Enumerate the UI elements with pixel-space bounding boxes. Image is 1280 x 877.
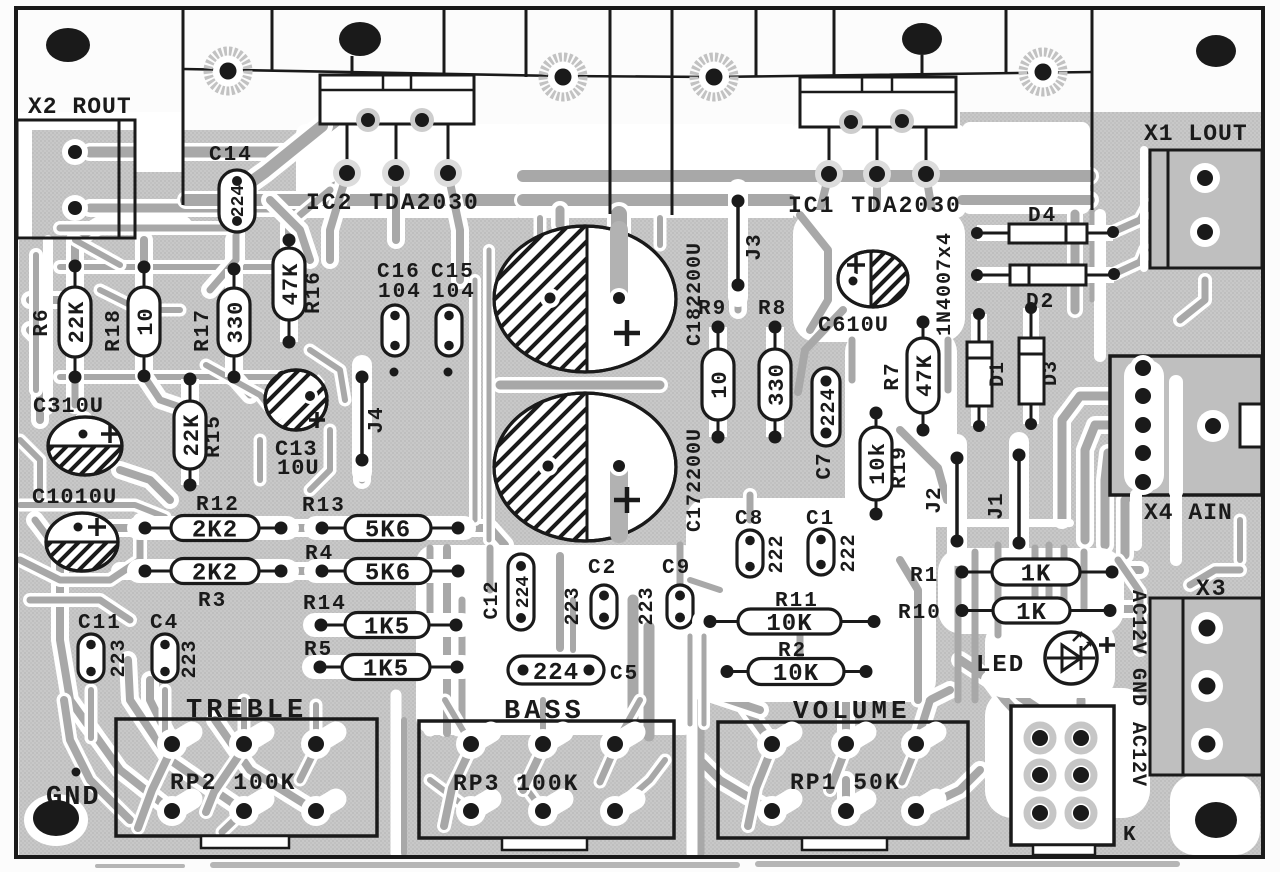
svg-text:GND: GND: [1126, 668, 1149, 707]
svg-text:224: 224: [818, 387, 841, 426]
svg-text:5K6: 5K6: [365, 561, 411, 588]
svg-text:2K2: 2K2: [192, 561, 238, 588]
capacitor C11: [78, 634, 131, 682]
X3 pin labels AC12V GND AC12V: [1126, 590, 1149, 787]
jumper J3: [732, 189, 768, 297]
capacitor C17: [346, 387, 829, 547]
mounting hole top-left: [46, 28, 90, 62]
svg-text:R5: R5: [304, 639, 333, 662]
GND pad: [72, 768, 81, 777]
wire traces network: [985, 688, 1150, 818]
LED D5: [1045, 632, 1097, 684]
svg-text:J1: J1: [986, 492, 1009, 519]
capacitor C9 label: [662, 557, 691, 580]
svg-text:223: 223: [636, 586, 659, 625]
svg-text:104: 104: [378, 281, 422, 304]
capacitor C13 label: [275, 437, 320, 481]
svg-text:C310U: C310U: [33, 394, 104, 419]
label BASS: [504, 697, 585, 727]
svg-text:R6: R6: [31, 307, 54, 336]
resistor R10: [898, 598, 1117, 627]
svg-text:R11: R11: [775, 590, 819, 613]
svg-text:C11: C11: [78, 612, 122, 635]
RP2 interior traces: [138, 748, 316, 832]
mounting hole top-mid-right: [902, 23, 942, 55]
capacitor C12 label: [481, 580, 504, 619]
svg-text:C8: C8: [735, 508, 764, 531]
connector X4 extra channels: [1136, 382, 1176, 560]
pad top-1: [208, 51, 248, 91]
connector K label: [1123, 824, 1137, 847]
capacitor C4: [152, 634, 202, 682]
svg-text:47K: 47K: [913, 354, 938, 397]
LED plus: [1099, 637, 1115, 653]
svg-text:104: 104: [432, 281, 476, 304]
svg-text:C14: C14: [209, 144, 253, 167]
capacitor C5: [508, 656, 604, 687]
svg-text:AC12V: AC12V: [1126, 590, 1149, 655]
svg-text:224: 224: [229, 185, 249, 218]
capacitor C11 label: [78, 612, 122, 635]
capacitor C16 label: [377, 261, 422, 304]
capacitor C2: [562, 585, 617, 628]
LED label: [976, 652, 1025, 679]
scan streaks: [95, 861, 1180, 868]
svg-text:RP1 50K: RP1 50K: [790, 770, 901, 796]
diode D2 label: [1026, 291, 1055, 314]
svg-text:1K: 1K: [1016, 600, 1047, 627]
capacitor C5 label: [610, 663, 639, 686]
pad near R16: [277, 371, 290, 384]
svg-text:10: 10: [708, 370, 733, 398]
capacitor C18 label: [684, 242, 707, 346]
top strip divider lines: [183, 8, 1092, 215]
svg-text:C7: C7: [814, 452, 837, 479]
capacitor C14: [219, 170, 255, 232]
op-amp IC2 tab: [320, 75, 474, 132]
svg-text:330: 330: [765, 363, 790, 406]
svg-text:TREBLE: TREBLE: [186, 696, 307, 726]
connector X1 label: [1144, 121, 1248, 147]
connector X2: [17, 120, 135, 238]
capacitor C9: [636, 585, 693, 628]
resistor R2: [721, 640, 873, 688]
connector K: [1011, 706, 1114, 855]
svg-text:R3: R3: [198, 590, 227, 613]
svg-text:1K: 1K: [1021, 562, 1052, 589]
capacitor C15 label: [431, 261, 476, 304]
resistor R11: [704, 590, 881, 638]
pad top-4: [1023, 52, 1063, 92]
svg-text:22K: 22K: [180, 414, 205, 457]
svg-text:223: 223: [179, 639, 202, 678]
svg-text:10K: 10K: [766, 611, 812, 638]
resistor R1: [910, 559, 1119, 589]
svg-text:R9: R9: [698, 298, 727, 321]
svg-text:K: K: [1123, 824, 1137, 847]
svg-text:5K6: 5K6: [365, 518, 411, 545]
connector X4: [1110, 355, 1262, 495]
svg-text:224: 224: [533, 660, 579, 687]
mounting hole top-right: [1196, 35, 1236, 67]
resistor R15: [174, 373, 226, 492]
svg-text:10U: 10U: [277, 456, 320, 481]
resistor R3: [139, 559, 288, 614]
potentiometer RP2: [116, 719, 377, 848]
svg-text:22K: 22K: [65, 301, 90, 344]
RP3 interior traces: [444, 748, 615, 826]
svg-text:RP2 100K: RP2 100K: [170, 770, 296, 796]
capacitor C17 label: [684, 428, 707, 532]
svg-text:J4: J4: [366, 406, 389, 433]
svg-text:1N4007x4: 1N4007x4: [934, 232, 957, 336]
svg-text:223: 223: [108, 638, 131, 677]
svg-text:47K: 47K: [279, 263, 304, 306]
diode D3 label: [1040, 360, 1063, 386]
svg-text:10: 10: [134, 307, 159, 335]
diode D4: [971, 224, 1119, 243]
resistor R8: [758, 298, 791, 444]
label VOLUME: [793, 696, 911, 726]
capacitor C16: [382, 305, 408, 377]
jumper J1: [986, 442, 1026, 558]
connector X2 label: [28, 94, 132, 120]
svg-text:330: 330: [224, 301, 249, 344]
resistor R18: [103, 261, 160, 383]
resistor R17: [192, 263, 250, 384]
svg-text:C12: C12: [481, 580, 504, 619]
svg-text:R13: R13: [302, 495, 346, 518]
capacitor C6 label: [818, 313, 889, 338]
op-amp IC1 pins: [815, 127, 940, 188]
resistor R4: [305, 543, 465, 588]
GND label: [46, 783, 101, 813]
capacitor C12: [508, 554, 534, 630]
svg-text:J3: J3: [744, 233, 767, 260]
svg-text:X1 LOUT: X1 LOUT: [1144, 121, 1248, 147]
svg-text:R19: R19: [889, 445, 912, 489]
svg-text:R14: R14: [303, 593, 347, 616]
capacitor C1 label: [806, 508, 835, 531]
capacitor C10 label: [32, 485, 117, 510]
capacitor C14 label: [209, 144, 253, 167]
svg-text:C9: C9: [662, 557, 691, 580]
svg-text:D3: D3: [1040, 360, 1063, 386]
capacitor C7: [812, 368, 841, 480]
svg-text:LED: LED: [976, 652, 1025, 679]
jumper J4: [356, 365, 390, 472]
diode label 1N4007x4: [934, 232, 957, 336]
svg-text:1K5: 1K5: [364, 615, 410, 642]
op-amp IC2 label: [306, 190, 480, 216]
diode D1: [967, 308, 992, 432]
mounting hole top-mid-left: [339, 22, 381, 56]
connector X4 label: [1144, 500, 1233, 526]
capacitor C3: [0, 411, 200, 481]
svg-text:R12: R12: [196, 494, 240, 517]
capacitor C1: [808, 529, 861, 575]
GND mounting hole: [33, 800, 79, 836]
svg-text:R1: R1: [910, 565, 939, 588]
potentiometer RP1 label: [790, 770, 901, 796]
diode D2: [971, 265, 1120, 285]
capacitor C18: [348, 220, 829, 378]
connector X3: [1150, 598, 1262, 775]
svg-text:222: 222: [766, 534, 789, 573]
svg-text:C4: C4: [150, 612, 179, 635]
svg-text:223: 223: [562, 586, 585, 625]
svg-text:C610U: C610U: [818, 313, 889, 338]
resistor R19: [860, 407, 912, 521]
GND clearance: [24, 794, 88, 846]
svg-text:10K: 10K: [773, 661, 819, 688]
svg-text:224: 224: [514, 576, 534, 609]
svg-text:C1010U: C1010U: [32, 485, 117, 510]
svg-text:1K5: 1K5: [363, 657, 409, 684]
svg-text:R7: R7: [882, 361, 905, 390]
svg-text:IC2 TDA2030: IC2 TDA2030: [306, 190, 480, 216]
potentiometer RP1: [718, 722, 968, 850]
resistor R5: [304, 639, 464, 684]
svg-text:R2: R2: [778, 640, 807, 663]
pad top-3: [694, 57, 734, 97]
op-amp IC1 label: [788, 193, 962, 219]
op-amp IC1 tab: [800, 77, 956, 134]
op-amp IC2 pins: [333, 124, 462, 187]
capacitor C10: [0, 507, 184, 577]
svg-text:C2: C2: [588, 557, 617, 580]
connector X3 label: [1196, 576, 1228, 602]
potentiometer RP3 label: [453, 771, 579, 797]
svg-text:R16: R16: [303, 270, 326, 314]
RP1 interior traces: [748, 748, 916, 826]
capacitor C4 label: [150, 612, 179, 635]
potentiometer RP2 label: [170, 770, 296, 796]
svg-text:222: 222: [838, 533, 861, 572]
mounting hole bottom-right: [1195, 802, 1237, 838]
resistor R12: [139, 494, 288, 545]
svg-text:C182200U: C182200U: [684, 242, 707, 346]
resistor R13: [302, 495, 465, 545]
connector X1: [1150, 150, 1262, 268]
svg-text:RP3 100K: RP3 100K: [453, 771, 579, 797]
svg-text:R15: R15: [203, 414, 226, 458]
svg-text:R4: R4: [305, 543, 334, 566]
svg-text:R17: R17: [192, 308, 215, 352]
svg-text:R8: R8: [758, 298, 787, 321]
capacitor C15: [436, 305, 462, 377]
pad top-2: [543, 57, 583, 97]
svg-text:2K2: 2K2: [192, 518, 238, 545]
capacitor C8 label: [735, 508, 764, 531]
svg-text:X4 AIN: X4 AIN: [1144, 500, 1233, 526]
capacitor C2 label: [588, 557, 617, 580]
label TREBLE: [186, 696, 307, 726]
resistor R16: [273, 234, 326, 349]
resistor R7: [882, 316, 939, 437]
capacitor C3 label: [33, 394, 104, 419]
svg-text:10k: 10k: [866, 442, 891, 485]
diode D1 label: [987, 361, 1010, 387]
diode D4 label: [1028, 205, 1057, 228]
diode D3: [1019, 302, 1044, 430]
svg-text:C172200U: C172200U: [684, 428, 707, 532]
svg-text:C5: C5: [610, 663, 639, 686]
potentiometer RP3: [419, 721, 674, 850]
capacitor C13: [205, 364, 403, 436]
svg-text:J2: J2: [924, 486, 947, 513]
resistor R6: [31, 260, 91, 384]
svg-text:D1: D1: [987, 361, 1010, 387]
svg-text:AC12V: AC12V: [1126, 722, 1149, 787]
svg-text:R18: R18: [103, 308, 126, 352]
svg-text:IC1 TDA2030: IC1 TDA2030: [788, 193, 962, 219]
resistor R9: [698, 298, 734, 444]
svg-text:X2 ROUT: X2 ROUT: [28, 94, 132, 120]
capacitor C8: [737, 530, 789, 577]
jumper J2: [924, 444, 964, 556]
svg-text:R10: R10: [898, 602, 942, 625]
resistor R14: [303, 593, 463, 642]
capacitor C6: [782, 245, 976, 313]
